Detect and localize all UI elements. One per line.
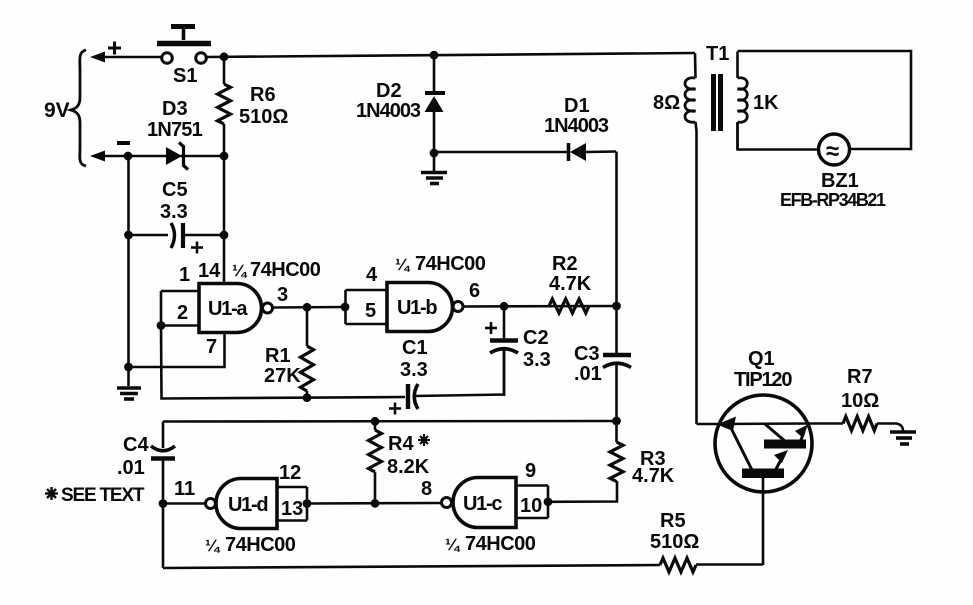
resistor R6 [218, 57, 231, 156]
svg-text:9: 9 [525, 460, 536, 482]
svg-text:74HC00: 74HC00 [250, 259, 321, 281]
node pin7 rail [124, 363, 133, 372]
node C3 bottom [612, 417, 621, 426]
wire U1-d inputs to U1-c output [307, 502, 441, 505]
svg-text:.01: .01 [117, 457, 145, 479]
wire buzzer to secondary bottom [738, 122, 819, 150]
battery plus arrow [90, 52, 161, 63]
svg-text:Q1: Q1 [748, 348, 775, 370]
T1 primary lead top [694, 53, 697, 78]
node C5 left [124, 231, 133, 240]
Q1 lower base bar [742, 469, 784, 479]
svg-text:27K: 27K [264, 365, 301, 387]
node D2 bottom [430, 149, 439, 158]
svg-text:8: 8 [421, 478, 432, 500]
svg-text:1: 1 [179, 264, 190, 286]
T1 secondary lead top [736, 52, 739, 79]
svg-text:¼: ¼ [205, 536, 221, 555]
pin 9 wire [516, 484, 548, 487]
wire R5 to Q1 emitter [696, 563, 763, 566]
svg-text:10: 10 [520, 495, 542, 517]
svg-text:5: 5 [365, 300, 376, 322]
pin 13 wire [277, 519, 307, 522]
SEE TEXT note [45, 487, 58, 500]
svg-text:U1-b: U1-b [397, 297, 437, 319]
node pin13 tie [303, 499, 312, 508]
diode D2 1N4003 [425, 55, 446, 153]
battery plus sign [108, 42, 121, 55]
Q1 upper step diagonal [765, 424, 786, 442]
wire bottom rail [163, 565, 660, 568]
resistor R5 510ohm [660, 558, 696, 572]
node pin10 tie [544, 497, 553, 506]
svg-text:SEE TEXT: SEE TEXT [61, 485, 145, 506]
pin 12 wire [277, 486, 307, 489]
svg-text:74HC00: 74HC00 [465, 533, 536, 555]
svg-text:.01: .01 [574, 363, 602, 385]
capacitor C1 3.3 (on feedback rail) [408, 350, 504, 409]
svg-text:8Ω: 8Ω [653, 92, 680, 114]
node pin11/C4 [159, 499, 168, 508]
resistor R7 10ohm [808, 417, 903, 432]
U1-d output bubble [206, 499, 216, 509]
capacitor C5 [129, 223, 225, 248]
wire left rail [127, 156, 130, 386]
gate U1-b (NAND 74HC00) [387, 283, 452, 332]
node R4 top [371, 417, 380, 426]
svg-text:14: 14 [198, 260, 221, 282]
resistor R3 4.7K [610, 421, 623, 482]
svg-text:4.7K: 4.7K [632, 465, 675, 487]
Q1 emitter lead [762, 478, 765, 565]
node D2 top [430, 51, 439, 60]
svg-text:510Ω: 510Ω [239, 106, 288, 128]
diode D1 1N4003 [569, 143, 617, 161]
svg-text:13: 13 [281, 498, 303, 520]
svg-text:C3: C3 [574, 343, 600, 365]
node U1-b tie [341, 303, 350, 312]
svg-text:R6: R6 [250, 84, 276, 106]
svg-text:8.2K: 8.2K [387, 456, 430, 478]
wire top rail [207, 53, 695, 57]
svg-text:1N4003: 1N4003 [356, 100, 421, 122]
svg-text:7: 7 [206, 336, 217, 358]
svg-text:¼: ¼ [232, 261, 248, 280]
svg-text:R4: R4 [388, 433, 414, 455]
buzzer BZ1 [819, 134, 850, 165]
pin 10 wire [516, 517, 548, 520]
resistor R2 4.7K [549, 299, 589, 313]
Q1 upper base bar [764, 440, 806, 449]
svg-text:U1-c: U1-c [463, 493, 502, 515]
capacitor C3 .01 [603, 306, 631, 421]
gate U1-c (NAND 74HC00, mirrored) [453, 478, 516, 528]
svg-text:11: 11 [174, 478, 195, 500]
svg-text:1N751: 1N751 [147, 119, 203, 141]
svg-text:3.3: 3.3 [160, 201, 188, 223]
U1-a output bubble [263, 303, 273, 313]
capacitor C4 .01 [151, 422, 175, 569]
pin 6 output wire [463, 305, 617, 308]
wire U1-a input tie [160, 291, 163, 326]
svg-text:D2: D2 [376, 80, 402, 102]
svg-text:1N4003: 1N4003 [544, 115, 609, 137]
pin 3 output wire [273, 306, 346, 309]
node C5 right [220, 231, 229, 240]
transformer T1 [685, 52, 747, 425]
svg-text:R5: R5 [660, 510, 686, 532]
battery minus sign [117, 141, 130, 145]
wire U1-c inputs to R3 [548, 481, 617, 502]
svg-text:510Ω: 510Ω [650, 531, 699, 553]
Q1 collector chord line [719, 422, 808, 425]
pin 7 wire [129, 333, 225, 368]
wire R6 rail to pin14 [223, 156, 226, 283]
T1 secondary lead bottom [736, 122, 739, 149]
pin 11 output wire [163, 502, 205, 505]
svg-text:6: 6 [469, 280, 480, 302]
ground (under D2) [421, 153, 447, 184]
battery minus arrow [90, 151, 165, 162]
svg-text:C2: C2 [523, 327, 549, 349]
svg-text:74HC00: 74HC00 [415, 253, 486, 275]
Q1 base wire from T1 [697, 423, 720, 426]
Q1 upper emitter arrow [798, 432, 804, 448]
node R1 bottom [303, 393, 312, 402]
svg-text:R7: R7 [847, 366, 873, 388]
9V brace [71, 50, 86, 166]
svg-text:4.7K: 4.7K [549, 273, 592, 295]
resistor R1 27K [301, 307, 314, 398]
Q1 base arrowhead [717, 417, 736, 432]
T1 core [711, 74, 716, 131]
svg-text:EFB-RP34B21: EFB-RP34B21 [780, 190, 886, 210]
svg-text:2: 2 [177, 302, 188, 324]
transistor Q1 TIP120 [697, 395, 813, 565]
svg-text:D1: D1 [564, 95, 590, 117]
Q1 lower emitter arrow [776, 456, 783, 469]
node R4 bottom [371, 499, 380, 508]
svg-text:74HC00: 74HC00 [225, 534, 296, 556]
wire D1 corner down to R2/C3 column [615, 152, 618, 307]
svg-text:1K: 1K [753, 92, 779, 114]
node D3/R6 [220, 152, 229, 161]
Q1 circle [715, 395, 812, 492]
T1 secondary winding [738, 78, 748, 123]
diode D3 1N751 zener [165, 143, 224, 170]
node R1 top [303, 303, 312, 312]
wire lower rail (R4/C3 top rail) [163, 420, 617, 423]
node pin2 tie [157, 321, 166, 330]
svg-text:T1: T1 [706, 43, 729, 65]
node minus/left-rail [124, 152, 133, 161]
wire U1-b input tie [344, 290, 347, 324]
svg-text:C1: C1 [402, 337, 428, 359]
U1-b output bubble [453, 302, 463, 312]
svg-text:U1-d: U1-d [228, 494, 267, 516]
node R2/C3 column [612, 302, 621, 311]
node pin6/C2 [500, 302, 509, 311]
svg-text:D3: D3 [162, 98, 188, 120]
wire tie down to feedback rail [161, 326, 405, 399]
pin 2 wire [161, 324, 199, 327]
svg-text:U1-a: U1-a [208, 298, 248, 320]
resistor R4 8.2K [369, 421, 382, 503]
T1 primary winding [685, 78, 696, 123]
svg-text:3.3: 3.3 [523, 349, 551, 371]
svg-text:≈: ≈ [826, 138, 839, 165]
svg-text:S1: S1 [173, 65, 197, 87]
svg-text:3: 3 [277, 284, 288, 306]
wire secondary top loop [738, 51, 912, 149]
svg-text:4: 4 [366, 264, 378, 286]
pin 4 wire [346, 289, 388, 292]
switch S1 [157, 27, 211, 64]
svg-text:12: 12 [279, 462, 301, 484]
capacitor C2 3.3 [490, 306, 518, 396]
svg-text:R2: R2 [552, 253, 578, 275]
ground (R7) [890, 432, 916, 444]
svg-text:3.3: 3.3 [400, 359, 428, 381]
svg-text:¼: ¼ [395, 255, 411, 274]
wire U1-d input tie [306, 487, 309, 521]
wire U1-c input tie [547, 486, 550, 519]
op-amp gate U1-a (NAND 74HC00) [199, 284, 262, 333]
node S1/R6 [220, 52, 229, 61]
gate U1-d (NAND 74HC00, mirrored) [216, 479, 277, 529]
U1-c output bubble [442, 498, 452, 508]
svg-text:9V: 9V [44, 99, 70, 122]
Q1 inner diagonal [731, 428, 752, 470]
svg-text:C4: C4 [123, 434, 149, 456]
pin 1 wire [161, 290, 199, 293]
svg-text:R1: R1 [265, 345, 291, 367]
svg-text:BZ1: BZ1 [821, 170, 859, 192]
svg-text:TIP120: TIP120 [734, 369, 792, 391]
svg-text:¼: ¼ [445, 535, 461, 554]
svg-text:10Ω: 10Ω [841, 390, 879, 412]
svg-text:C5: C5 [162, 179, 188, 201]
ground (left rail) [117, 388, 141, 399]
wire D2 to D1 [434, 151, 567, 154]
T1 primary lead bottom [696, 122, 697, 424]
pin 5 wire [346, 323, 388, 326]
